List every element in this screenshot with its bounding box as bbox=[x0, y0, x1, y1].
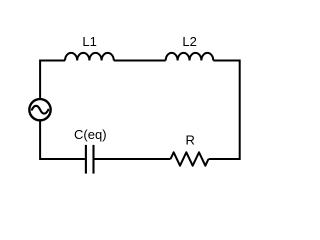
svg-text:L2: L2 bbox=[182, 34, 196, 49]
svg-text:R: R bbox=[186, 133, 195, 148]
svg-text:C(eq): C(eq) bbox=[74, 127, 107, 142]
svg-text:L1: L1 bbox=[82, 34, 96, 49]
